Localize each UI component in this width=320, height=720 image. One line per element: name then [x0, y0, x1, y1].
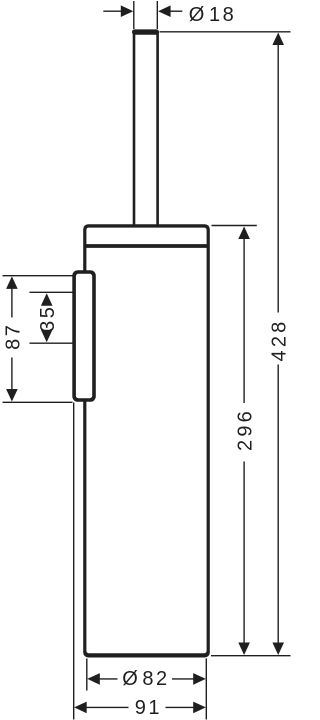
svg-text:35: 35: [37, 305, 59, 332]
svg-text:428: 428: [269, 319, 291, 362]
dim 91 right arrowhead: [193, 702, 206, 714]
dim Ø82 left extension line: [86, 659, 88, 691]
dim Ø18 right arrow tail: [170, 10, 182, 12]
shared right extension line (Ø82 and 91): [205, 659, 207, 720]
dim 91 left arrow tail: [87, 706, 129, 708]
dim 296 top extension line (lid top): [212, 225, 257, 227]
dim Ø82 left arrowhead: [87, 673, 100, 685]
dim Ø18 left extension line: [133, 1, 135, 29]
dim 35 top arrowhead: [41, 293, 53, 306]
brush handle rod top cap: [132, 29, 159, 34]
dim 87 top extension line: [3, 275, 73, 277]
dim Ø18 right arrowhead: [158, 5, 171, 17]
svg-text:Ø82: Ø82: [122, 668, 169, 690]
lid rim line: [85, 244, 209, 248]
dim Ø18 right extension line: [156, 1, 158, 29]
dim 91 right arrow tail: [166, 706, 194, 708]
dim 35 top extension line: [30, 291, 73, 293]
dim 87 bottom extension line: [3, 401, 73, 403]
dim 91 left extension line: [73, 403, 75, 720]
brush handle rod left wall: [133, 32, 136, 226]
dim Ø82 right arrowhead: [193, 673, 206, 685]
dim 87 line lower segment: [11, 358, 13, 401]
dim 428 line lower segment: [277, 365, 279, 654]
svg-text:Ø18: Ø18: [189, 4, 236, 26]
dim 35 bottom extension line: [30, 342, 73, 344]
svg-text:296: 296: [235, 408, 257, 451]
dim 428 line upper segment: [277, 34, 279, 313]
dim 428 top arrowhead: [272, 33, 284, 46]
container body outline: [83, 224, 210, 657]
dim 296 bottom arrowhead: [238, 643, 250, 656]
wall bracket plate: [72, 270, 96, 402]
dim 296 top arrowhead: [238, 227, 250, 240]
dim 87 line upper segment: [11, 278, 13, 318]
dim 35 bottom arrowhead: [41, 330, 53, 343]
svg-text:91: 91: [135, 697, 162, 719]
dim 87 bottom arrowhead: [6, 389, 18, 402]
svg-text:87: 87: [2, 323, 24, 350]
dim Ø18 left arrow tail: [103, 10, 121, 12]
dim Ø18 left arrowhead: [121, 5, 133, 17]
dim Ø82 left arrow tail: [100, 678, 118, 680]
dim 428 bottom extension line (body bottom): [211, 655, 291, 657]
dim 428 top extension line (rod top): [160, 31, 291, 33]
dim 428 bottom arrowhead: [272, 643, 284, 656]
dim Ø82 right arrow tail: [172, 678, 194, 680]
dim 296 line upper segment: [243, 228, 245, 403]
brush handle rod right wall: [156, 32, 159, 226]
dim 91 left arrowhead: [74, 702, 87, 714]
dim 87 top arrowhead: [6, 276, 18, 289]
dim 296 line lower segment: [243, 462, 245, 654]
